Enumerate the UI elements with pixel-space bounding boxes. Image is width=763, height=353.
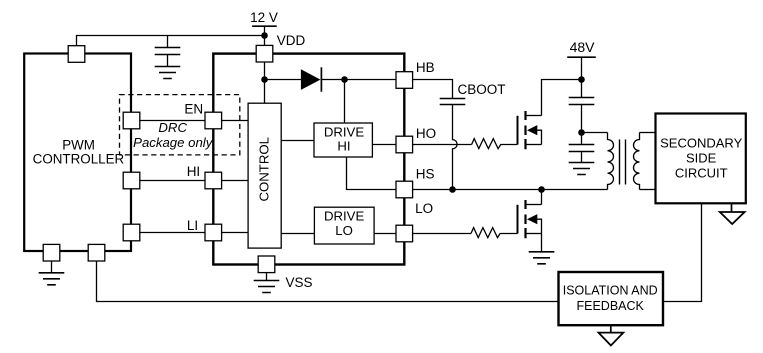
svg-text:CONTROL: CONTROL xyxy=(257,137,272,201)
wire: VDD pin to CONTROL xyxy=(264,62,266,103)
transformer: core xyxy=(620,140,626,185)
svg-text:SIDE: SIDE xyxy=(686,150,717,165)
CONTROL block xyxy=(248,103,281,248)
capacitor: 48V upper divider cap xyxy=(569,98,595,105)
svg-text:Package only: Package only xyxy=(133,135,214,150)
pin: PWM ground 2 xyxy=(88,244,105,261)
svg-text:HI: HI xyxy=(187,164,201,179)
svg-text:DRIVE: DRIVE xyxy=(324,208,365,223)
wire: lower cap to ground xyxy=(581,152,583,163)
wire: low FET source to ground xyxy=(541,234,543,252)
wire: secondary box to isolation block xyxy=(663,203,702,301)
isolation and feedback block xyxy=(559,272,664,325)
svg-text:VSS: VSS xyxy=(286,275,313,290)
svg-text:48V: 48V xyxy=(570,39,596,55)
wire: secondary bottom to box xyxy=(640,189,656,191)
wire: 12V bar to VDD pin xyxy=(264,26,266,45)
wire: high FET drain to 48V node xyxy=(542,80,582,116)
DRIVE LO block xyxy=(314,207,374,244)
svg-text:VDD: VDD xyxy=(277,33,306,48)
pin: PWM LI output xyxy=(123,224,140,241)
svg-text:SECONDARY: SECONDARY xyxy=(660,135,742,150)
ground: PWM controller ground xyxy=(39,273,65,285)
DRC package option dashed outline xyxy=(120,95,240,155)
svg-text:EN: EN xyxy=(184,102,203,117)
PWM controller block xyxy=(24,54,131,252)
svg-text:HB: HB xyxy=(416,60,435,75)
junction: 48V node xyxy=(578,76,585,83)
wire: bootstrap node to DRIVE HI xyxy=(344,80,346,124)
wire: HI net xyxy=(140,180,248,182)
wire: LO pin to gate resistor xyxy=(413,233,471,235)
ground xyxy=(569,163,595,175)
svg-text:ISOLATION AND: ISOLATION AND xyxy=(563,284,658,298)
junction: CBOOT return xyxy=(449,186,456,193)
pin: HS xyxy=(396,181,413,198)
ground: VSS xyxy=(254,281,280,293)
pin: PWM supply output xyxy=(68,46,85,63)
wire: DRIVE HI to HO pin xyxy=(372,144,396,146)
svg-text:CONTROLLER: CONTROLLER xyxy=(33,151,125,166)
wire: PWM ground stem xyxy=(51,261,53,273)
pin: VDD xyxy=(256,45,273,62)
pin: LI xyxy=(205,224,222,241)
svg-text:LO: LO xyxy=(335,223,353,238)
wire: midpoint to transformer primary xyxy=(582,132,608,134)
wire: DRIVE HI to HS pin xyxy=(347,157,397,190)
svg-text:CIRCUIT: CIRCUIT xyxy=(675,165,728,180)
wire: LI net xyxy=(140,232,248,234)
wire: cathode to HB pin xyxy=(321,79,396,81)
wire: HB pin to CBOOT xyxy=(413,80,453,99)
wire: CBOOT to HS node (hop over HO) xyxy=(453,105,458,190)
wire: anode xyxy=(265,79,301,81)
capacitor: VDD bypass xyxy=(155,48,181,55)
transistor: low-side MOSFET xyxy=(518,200,542,238)
resistor: low-side gate resistor xyxy=(471,228,518,238)
svg-text:HS: HS xyxy=(416,167,435,182)
junction: diode anode node xyxy=(261,76,268,83)
capacitor: CBOOT xyxy=(440,99,466,105)
wire: VSS ground stem xyxy=(266,273,268,281)
wire: low FET drain to switch node xyxy=(541,190,543,205)
DRIVE HI block xyxy=(314,123,372,157)
junction: bootstrap node xyxy=(341,76,348,83)
ground: secondary side triangle xyxy=(720,203,745,224)
wire: HO pin to gate resistor xyxy=(413,144,472,146)
pin: VSS xyxy=(258,256,275,273)
pin: HI xyxy=(205,172,222,189)
wire: secondary top to box xyxy=(640,132,656,134)
wire: PWM VDD pin to 12V node xyxy=(77,36,265,47)
ground: isolation feedback triangle xyxy=(599,325,624,345)
svg-text:LO: LO xyxy=(415,201,433,216)
gate driver IC outline xyxy=(213,54,404,265)
svg-text:DRC: DRC xyxy=(158,120,187,135)
transformer: secondary winding xyxy=(633,133,639,190)
wire: EN net xyxy=(140,120,248,122)
pin: HB xyxy=(396,72,413,89)
wire: midpoint to lower cap xyxy=(581,133,583,145)
svg-text:12 V: 12 V xyxy=(250,10,278,25)
svg-text:LI: LI xyxy=(187,218,198,233)
wire: DRIVE LO to LO pin xyxy=(374,233,396,235)
wire: switch node rail xyxy=(413,189,608,191)
wire: node to upper cap xyxy=(581,80,583,98)
pin: HO xyxy=(396,136,413,153)
wire: cap to ground xyxy=(167,55,169,67)
wire: feedback return to isolation block xyxy=(97,261,559,302)
resistor: high-side gate resistor xyxy=(472,139,518,149)
capacitor: lower divider cap xyxy=(569,145,595,152)
pin: PWM ground 1 xyxy=(43,244,60,261)
wire: upper cap to midpoint xyxy=(581,105,583,133)
wire: CONTROL to DRIVE LO xyxy=(281,233,314,235)
svg-text:HO: HO xyxy=(416,126,436,141)
transistor: high-side MOSFET xyxy=(518,111,542,149)
diode: bootstrap diode xyxy=(301,69,321,90)
svg-text:DRIVE: DRIVE xyxy=(324,124,365,139)
junction: 12V node xyxy=(261,32,268,39)
pin: EN xyxy=(205,112,222,129)
junction: FET half-bridge node xyxy=(538,186,545,193)
secondary side circuit block xyxy=(656,114,746,204)
svg-text:HI: HI xyxy=(337,139,350,154)
wire: bypass cap stem xyxy=(167,36,169,48)
ground xyxy=(155,67,181,79)
junction: divider midpoint xyxy=(578,129,585,136)
wire: 48V bar to node xyxy=(581,57,583,79)
svg-text:CBOOT: CBOOT xyxy=(458,82,506,97)
transformer: primary winding xyxy=(608,133,614,190)
pin: LO xyxy=(396,225,413,242)
svg-text:PWM: PWM xyxy=(62,137,95,152)
wire: CONTROL to DRIVE HI xyxy=(281,140,314,142)
svg-text:FEEDBACK: FEEDBACK xyxy=(577,299,645,313)
pin: PWM EN output xyxy=(123,112,140,129)
ground: power ground xyxy=(529,252,555,264)
pin: PWM HI output xyxy=(123,172,140,189)
